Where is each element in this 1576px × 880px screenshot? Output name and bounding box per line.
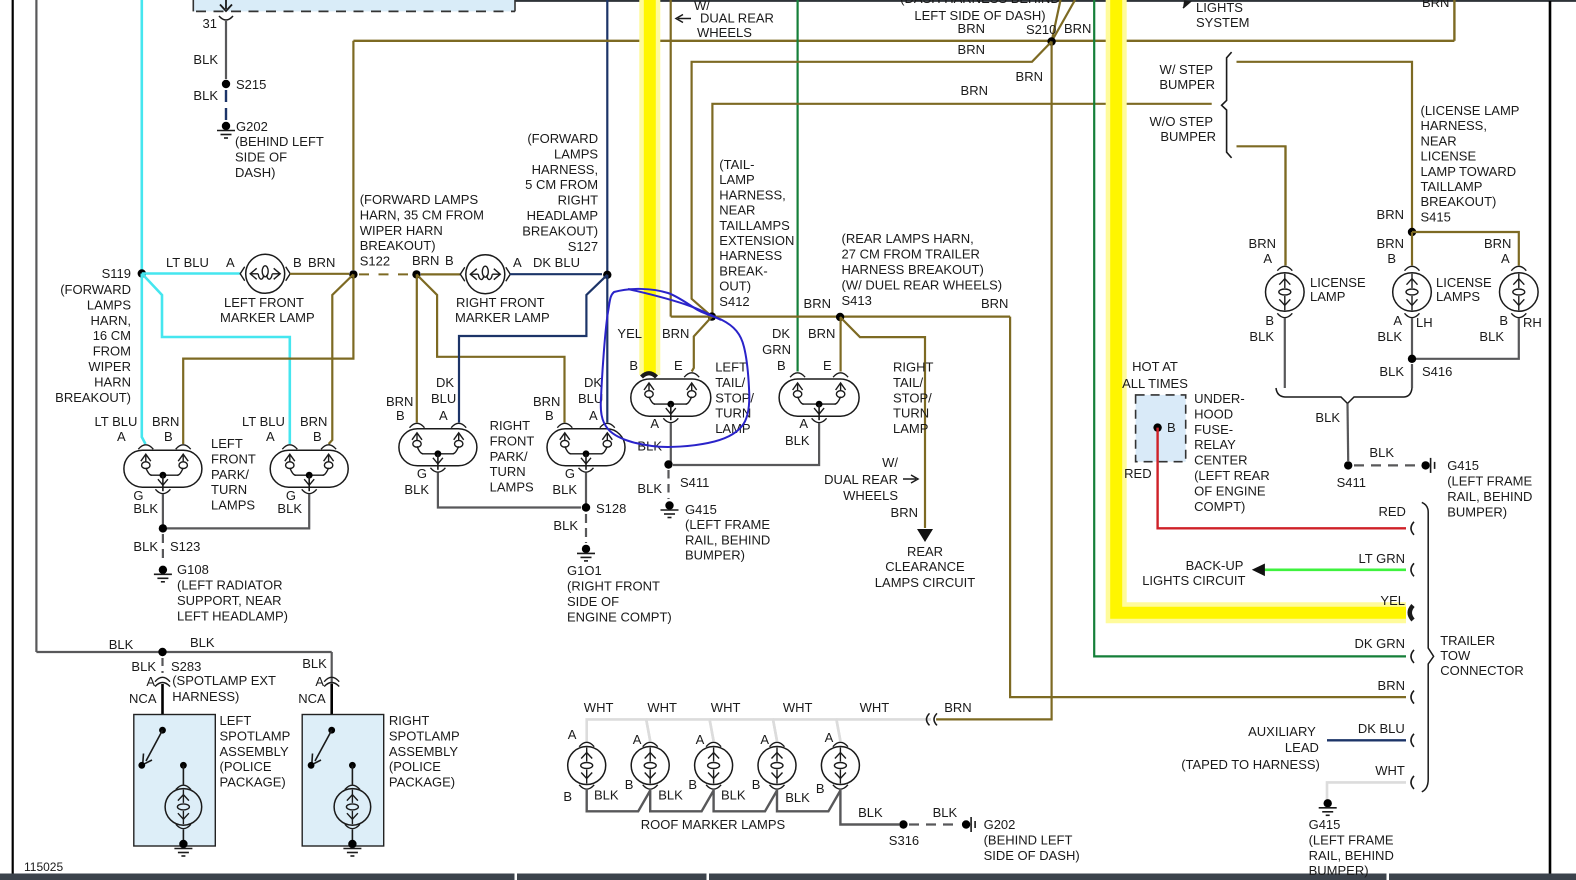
svg-text:B: B bbox=[1167, 420, 1176, 435]
svg-text:BUMPER: BUMPER bbox=[1160, 129, 1216, 144]
svg-text:TAILLAMP: TAILLAMP bbox=[1421, 179, 1483, 194]
pin A left tail lamp bbox=[663, 418, 678, 422]
svg-text:B: B bbox=[164, 429, 173, 444]
svg-text:G415: G415 bbox=[1309, 817, 1341, 832]
lamp RIGHT TAIL/STOP/TURN LAMP bbox=[779, 379, 859, 416]
svg-text:HARNESS: HARNESS bbox=[719, 248, 782, 263]
pin A right park lamp 2 bbox=[600, 423, 615, 427]
svg-text:WHT: WHT bbox=[860, 700, 890, 715]
svg-text:BLK: BLK bbox=[190, 635, 215, 650]
wire BLK dashed S411 to ground bbox=[667, 470, 669, 499]
svg-text:CONNECTOR: CONNECTOR bbox=[1440, 663, 1524, 678]
svg-text:ROOF MARKER LAMPS: ROOF MARKER LAMPS bbox=[641, 817, 786, 832]
svg-text:MARKER LAMP: MARKER LAMP bbox=[455, 310, 550, 325]
svg-text:WHT: WHT bbox=[783, 700, 813, 715]
svg-text:(RIGHT FRONT: (RIGHT FRONT bbox=[567, 579, 660, 594]
svg-text:BREAKOUT): BREAKOUT) bbox=[522, 223, 598, 238]
wire BLK lamp2 G to S123 bbox=[167, 494, 309, 528]
svg-text:G202: G202 bbox=[984, 817, 1016, 832]
svg-text:NCA: NCA bbox=[129, 691, 157, 706]
svg-text:RH: RH bbox=[1523, 315, 1542, 330]
pin A roof marker lamp 2 bbox=[643, 742, 658, 746]
wire GRN right turn feed bbox=[796, 0, 798, 372]
svg-text:BLK: BLK bbox=[785, 433, 810, 448]
svg-text:W/O STEP: W/O STEP bbox=[1149, 114, 1213, 129]
wire BRN S122 diagonal to left pair lamp2 B bbox=[329, 274, 354, 444]
svg-text:HARNESS BREAKOUT): HARNESS BREAKOUT) bbox=[842, 262, 984, 277]
pin A roof marker lamp 3 bbox=[706, 742, 721, 746]
svg-text:(SPOTLAMP EXT: (SPOTLAMP EXT bbox=[172, 673, 276, 688]
svg-text:27 CM FROM TRAILER: 27 CM FROM TRAILER bbox=[842, 247, 980, 262]
svg-text:(TAPED TO HARNESS): (TAPED TO HARNESS) bbox=[1181, 757, 1320, 772]
wire BRN splice to lamp2 B of right pair bbox=[417, 274, 565, 422]
svg-text:A: A bbox=[117, 429, 126, 444]
svg-text:RIGHT: RIGHT bbox=[389, 713, 430, 728]
pin A LH license lamp bottom bbox=[1405, 313, 1420, 317]
wire BRN w/ dual rear wheels vertical bbox=[670, 0, 672, 317]
terminal LT GRN at trailer connector bbox=[1411, 563, 1414, 576]
svg-text:LEFT: LEFT bbox=[715, 360, 747, 375]
svg-text:LEFT: LEFT bbox=[220, 713, 252, 728]
svg-text:S316: S316 bbox=[889, 833, 919, 848]
svg-text:NCA: NCA bbox=[298, 691, 326, 706]
svg-text:B: B bbox=[445, 253, 454, 268]
svg-text:BLK: BLK bbox=[277, 501, 302, 516]
svg-text:LAMP: LAMP bbox=[893, 421, 928, 436]
lamp in left spotlamp assembly bbox=[180, 762, 187, 769]
pin A right park lamp 1 bbox=[451, 423, 466, 427]
lamp ROOF MARKER LAMP 4 bbox=[758, 747, 796, 785]
svg-text:STOP/: STOP/ bbox=[893, 390, 932, 405]
svg-text:OUT): OUT) bbox=[719, 279, 751, 294]
svg-text:BRN: BRN bbox=[1016, 69, 1043, 84]
wire BRN S415 down to LH license lamp B bbox=[1411, 232, 1413, 266]
svg-text:BREAKOUT): BREAKOUT) bbox=[360, 238, 436, 253]
svg-text:RAIL, BEHIND: RAIL, BEHIND bbox=[685, 532, 770, 547]
splice S411 left bbox=[664, 460, 672, 468]
svg-text:YEL: YEL bbox=[1380, 593, 1405, 608]
svg-text:A: A bbox=[146, 674, 155, 689]
svg-text:BRN: BRN bbox=[961, 83, 988, 98]
svg-text:LH: LH bbox=[1416, 315, 1433, 330]
box UNDERHOOD FUSE-RELAY CENTER bbox=[1136, 395, 1186, 462]
pin B roof marker lamp 4 bbox=[770, 785, 785, 789]
lamp LEFT FRONT MARKER LAMP bbox=[246, 254, 285, 293]
wire BRN w/o step bumper branch to license lamp bbox=[1237, 146, 1286, 265]
svg-text:DK GRN: DK GRN bbox=[1354, 636, 1405, 651]
splice S316 bbox=[899, 820, 907, 828]
wire DK BLU auxiliary lead bbox=[1327, 739, 1406, 741]
svg-text:(W/ DUEL REAR WHEELS): (W/ DUEL REAR WHEELS) bbox=[842, 278, 1003, 293]
svg-text:FRONT: FRONT bbox=[211, 451, 256, 466]
svg-text:SYSTEM: SYSTEM bbox=[1196, 15, 1249, 30]
lamp RIGHT FRONT PARK/TURN LAMP 2 bbox=[547, 429, 625, 466]
box RIGHT SPOTLAMP ASSEMBLY bbox=[302, 715, 384, 847]
lamp LEFT FRONT PARK/TURN LAMP 2 bbox=[270, 450, 348, 487]
svg-text:RAIL, BEHIND: RAIL, BEHIND bbox=[1309, 848, 1394, 863]
wire BLK dashed S411 to G415 bbox=[1354, 464, 1416, 466]
terminal WHT at trailer connector bbox=[1411, 776, 1414, 789]
terminal DK BLU at trailer connector bbox=[1411, 734, 1414, 747]
svg-text:B: B bbox=[688, 777, 697, 792]
svg-text:TRAILER: TRAILER bbox=[1440, 633, 1495, 648]
svg-text:AUXILIARY: AUXILIARY bbox=[1248, 724, 1316, 739]
svg-text:HARN,: HARN, bbox=[91, 313, 131, 328]
svg-text:YEL: YEL bbox=[617, 326, 642, 341]
wire BLK dashed S123 to G108 bbox=[162, 534, 164, 563]
brace W/STEP / W/O STEP BUMPER bbox=[1222, 52, 1232, 158]
svg-text:LAMPS: LAMPS bbox=[87, 297, 131, 312]
svg-text:BLK: BLK bbox=[133, 539, 158, 554]
page top border bbox=[193, 0, 1576, 2]
wire BLK RH license B to S416 bbox=[1416, 318, 1519, 359]
svg-text:BRN: BRN bbox=[944, 700, 971, 715]
wire BRN trunk corner up to rear lights system bbox=[1453, 0, 1455, 41]
svg-text:A: A bbox=[513, 255, 522, 270]
svg-text:LICENSE: LICENSE bbox=[1310, 275, 1366, 290]
ground G108 bbox=[159, 566, 167, 574]
svg-text:LAMPS: LAMPS bbox=[554, 146, 598, 161]
lamp LICENSE LAMP RH bbox=[1500, 273, 1539, 312]
svg-text:BRN: BRN bbox=[412, 253, 439, 268]
svg-text:RIGHT: RIGHT bbox=[893, 360, 934, 375]
wire BRN S412 to S413 horizontal bbox=[671, 316, 1010, 318]
svg-text:S210: S210 bbox=[1026, 22, 1056, 37]
svg-text:BLK: BLK bbox=[1377, 329, 1402, 344]
svg-text:(BEHIND LEFT: (BEHIND LEFT bbox=[235, 134, 324, 149]
wire BLK LH license A to S416 bbox=[1411, 318, 1413, 359]
ground G202 behind dash (side symbol) bbox=[962, 820, 970, 828]
connector box DASH (top left, cut off) bbox=[193, 0, 515, 11]
svg-text:RED: RED bbox=[1124, 466, 1151, 481]
svg-text:RIGHT: RIGHT bbox=[558, 193, 599, 208]
svg-text:LAMPS: LAMPS bbox=[1436, 289, 1480, 304]
wire BLK dashed S283 to spotlamp connector bbox=[161, 658, 163, 673]
svg-text:E: E bbox=[674, 358, 683, 373]
lamp ROOF MARKER LAMP 3 bbox=[695, 747, 733, 785]
svg-text:HARNESS,: HARNESS, bbox=[1421, 118, 1487, 133]
svg-text:B: B bbox=[629, 358, 638, 373]
lamp LICENSE LAMP LH bbox=[1393, 273, 1432, 312]
wire BRN S413 branch to rear clearance lamps bbox=[840, 317, 925, 528]
pin B right park lamp 1 bbox=[410, 423, 425, 427]
svg-text:BRN: BRN bbox=[981, 296, 1008, 311]
svg-text:BRN: BRN bbox=[1484, 236, 1511, 251]
svg-text:BLK: BLK bbox=[933, 805, 958, 820]
splice S415 bbox=[1408, 228, 1416, 236]
wire BRN splice down to right park pair lamp1 B bbox=[416, 274, 418, 422]
svg-text:LT BLU: LT BLU bbox=[166, 255, 209, 270]
svg-text:BRN: BRN bbox=[300, 414, 327, 429]
wire DK BLU main vertical from top bbox=[606, 0, 608, 274]
lamp LEFT FRONT PARK/TURN LAMP 1 bbox=[124, 450, 202, 487]
svg-text:S215: S215 bbox=[236, 77, 266, 92]
svg-text:A: A bbox=[633, 732, 642, 747]
svg-text:SIDE OF: SIDE OF bbox=[235, 149, 287, 164]
svg-text:(LEFT REAR: (LEFT REAR bbox=[1194, 468, 1270, 483]
svg-text:B: B bbox=[1499, 313, 1508, 328]
svg-text:G202: G202 bbox=[236, 119, 268, 134]
svg-text:DK: DK bbox=[772, 326, 790, 341]
svg-text:BLK: BLK bbox=[109, 637, 134, 652]
svg-text:WHT: WHT bbox=[1375, 763, 1405, 778]
svg-text:(LEFT RADIATOR: (LEFT RADIATOR bbox=[177, 578, 282, 593]
svg-text:LAMP TOWARD: LAMP TOWARD bbox=[1421, 164, 1517, 179]
lamp LEFT TAIL/STOP/TURN LAMP bbox=[631, 379, 711, 416]
svg-text:G108: G108 bbox=[177, 562, 209, 577]
wire WHT roof marker daisy chain bbox=[587, 719, 651, 742]
svg-text:SPOTLAMP: SPOTLAMP bbox=[220, 728, 291, 743]
pin B RH license lamp bottom bbox=[1511, 313, 1526, 317]
svg-text:COMPT): COMPT) bbox=[1194, 499, 1245, 514]
svg-text:S283: S283 bbox=[171, 659, 201, 674]
svg-text:BRN: BRN bbox=[1422, 0, 1449, 10]
svg-text:BREAKOUT): BREAKOUT) bbox=[55, 390, 131, 405]
svg-text:A: A bbox=[760, 732, 769, 747]
lamp ROOF MARKER LAMP 1 bbox=[568, 747, 606, 785]
pin E left tail lamp bbox=[684, 373, 699, 377]
ground G415 left frame rail bbox=[665, 501, 673, 509]
svg-text:BRN: BRN bbox=[958, 42, 985, 57]
svg-text:BUMPER: BUMPER bbox=[1159, 77, 1215, 92]
svg-text:S416: S416 bbox=[1422, 364, 1452, 379]
wire BLK brace to S411 bbox=[1346, 404, 1349, 462]
label REAR LIGHTS SYSTEM with arrow bbox=[1183, 1, 1190, 8]
svg-text:A: A bbox=[650, 416, 659, 431]
wire GRN dk green vertical to trailer connector bbox=[1094, 0, 1406, 656]
wire NCA into left spotlamp bbox=[161, 684, 164, 730]
svg-text:G1O1: G1O1 bbox=[567, 563, 602, 578]
wire BRN S210 diagonal to tail harness corner bbox=[692, 42, 1052, 317]
splice S416 bbox=[1408, 355, 1416, 363]
svg-text:BLK: BLK bbox=[858, 805, 883, 820]
svg-text:BLK: BLK bbox=[553, 518, 578, 533]
svg-text:WHEELS: WHEELS bbox=[697, 25, 752, 40]
svg-text:S127: S127 bbox=[568, 239, 598, 254]
wire BRN dashed S122 to splice bbox=[359, 273, 412, 275]
wire BLK right tail A to S411 bbox=[673, 423, 819, 465]
svg-text:LIGHTS: LIGHTS bbox=[1196, 0, 1243, 15]
svg-text:LAMP: LAMP bbox=[719, 172, 754, 187]
svg-text:SUPPORT, NEAR: SUPPORT, NEAR bbox=[177, 593, 282, 608]
svg-text:(LEFT FRAME: (LEFT FRAME bbox=[685, 517, 770, 532]
svg-text:A: A bbox=[439, 408, 448, 423]
wire DK BLU S127 down to right pair lamp2 A bbox=[606, 275, 608, 423]
svg-text:S415: S415 bbox=[1421, 209, 1451, 224]
svg-text:(BEHIND LEFT: (BEHIND LEFT bbox=[984, 832, 1073, 847]
svg-text:(POLICE: (POLICE bbox=[389, 759, 441, 774]
svg-text:BLU: BLU bbox=[431, 391, 456, 406]
svg-text:(LEFT FRAME: (LEFT FRAME bbox=[1309, 832, 1394, 847]
svg-text:PACKAGE): PACKAGE) bbox=[220, 775, 286, 790]
svg-text:16 CM: 16 CM bbox=[93, 328, 131, 343]
svg-text:HOT AT: HOT AT bbox=[1132, 359, 1178, 374]
splice S413 bbox=[836, 313, 844, 321]
svg-text:S412: S412 bbox=[719, 294, 749, 309]
wire WHT trailer ground lead bbox=[1327, 782, 1406, 799]
svg-text:LAMP: LAMP bbox=[1310, 289, 1345, 304]
svg-text:B: B bbox=[396, 408, 405, 423]
terminal DK GRN at trailer connector bbox=[1411, 650, 1414, 663]
wire BRN S413 down to right tail E pin bbox=[839, 317, 841, 372]
svg-text:BRN: BRN bbox=[308, 255, 335, 270]
brace TRAILER TOW CONNECTOR bbox=[1422, 502, 1434, 791]
svg-text:S123: S123 bbox=[170, 539, 200, 554]
lamp LICENSE LAMP (single) bbox=[1266, 273, 1305, 312]
svg-text:(LICENSE LAMP: (LICENSE LAMP bbox=[1421, 103, 1520, 118]
svg-text:LIGHTS CIRCUIT: LIGHTS CIRCUIT bbox=[1142, 573, 1245, 588]
svg-text:RELAY: RELAY bbox=[1194, 437, 1236, 452]
svg-text:BREAKOUT): BREAKOUT) bbox=[1421, 194, 1497, 209]
splice S283 bbox=[158, 648, 166, 656]
svg-text:FRONT: FRONT bbox=[490, 433, 535, 448]
svg-text:A: A bbox=[696, 732, 705, 747]
svg-text:WIPER HARN: WIPER HARN bbox=[360, 223, 443, 238]
wire BLK dashed S215 to G202 bbox=[225, 90, 227, 120]
svg-text:G415: G415 bbox=[1447, 458, 1479, 473]
svg-text:115025: 115025 bbox=[24, 860, 63, 874]
wire LT BLU branch S119 to right lamp of pair bbox=[142, 274, 290, 445]
svg-text:31: 31 bbox=[203, 16, 217, 31]
svg-text:WIPER: WIPER bbox=[88, 359, 131, 374]
wire BRN S122 vertical to left pair lamp1 B bbox=[183, 274, 353, 444]
svg-text:BLK: BLK bbox=[193, 88, 218, 103]
svg-text:A: A bbox=[825, 730, 834, 745]
svg-text:W/: W/ bbox=[882, 455, 898, 470]
ground G415 trailer bbox=[1324, 799, 1332, 807]
svg-text:BLK: BLK bbox=[1315, 410, 1340, 425]
svg-text:HARNESS,: HARNESS, bbox=[719, 187, 785, 202]
wire BLK right spotlamp riser bbox=[331, 652, 333, 684]
wire BRN main horizontal trunk bbox=[353, 40, 1454, 42]
terminal BRN at trailer connector bbox=[1411, 691, 1414, 704]
ground right spotlamp bbox=[348, 840, 356, 848]
svg-text:LICENSE: LICENSE bbox=[1436, 275, 1492, 290]
svg-text:BRN: BRN bbox=[1377, 236, 1404, 251]
svg-text:A: A bbox=[799, 416, 808, 431]
pin A roof marker lamp 5 bbox=[833, 742, 848, 746]
svg-text:BLK: BLK bbox=[1379, 364, 1404, 379]
annotation hand-drawn blue loop bbox=[601, 289, 750, 447]
pin A roof marker lamp 4 bbox=[770, 742, 785, 746]
svg-text:UNDER-: UNDER- bbox=[1194, 391, 1245, 406]
splice S215 bbox=[222, 80, 230, 88]
svg-text:PACKAGE): PACKAGE) bbox=[389, 775, 455, 790]
svg-text:S411: S411 bbox=[1337, 475, 1366, 490]
svg-text:HEADLAMP: HEADLAMP bbox=[527, 208, 599, 223]
svg-text:BRN: BRN bbox=[152, 414, 179, 429]
svg-text:TURN: TURN bbox=[893, 406, 929, 421]
wire NCA into right spotlamp bbox=[330, 684, 333, 730]
svg-text:LEFT FRONT: LEFT FRONT bbox=[224, 295, 304, 310]
svg-text:BLK: BLK bbox=[193, 52, 218, 67]
svg-text:BRN: BRN bbox=[804, 296, 831, 311]
wire BLK lamp4 G to S128 bbox=[585, 473, 587, 508]
svg-text:RAIL, BEHIND: RAIL, BEHIND bbox=[1447, 489, 1532, 504]
svg-text:BLK: BLK bbox=[131, 659, 156, 674]
svg-text:BLK: BLK bbox=[658, 788, 683, 803]
svg-text:B: B bbox=[752, 777, 761, 792]
svg-text:BRN: BRN bbox=[958, 21, 985, 36]
svg-text:A: A bbox=[1393, 313, 1402, 328]
svg-text:HARNESS): HARNESS) bbox=[172, 689, 239, 704]
bottom toolbar bbox=[0, 874, 1576, 880]
brace joining license lamp grounds bbox=[1276, 388, 1412, 404]
svg-text:SIDE OF: SIDE OF bbox=[567, 594, 619, 609]
svg-text:LEFT: LEFT bbox=[211, 436, 243, 451]
svg-text:TAIL/: TAIL/ bbox=[893, 375, 923, 390]
wire LT BLU main feed vertical bbox=[141, 0, 144, 274]
arrow to rear clearance lamps circuit bbox=[917, 529, 933, 542]
pin 31 arrow into connector bbox=[225, 0, 227, 9]
ground G415 at frame (side symbol) bbox=[1421, 461, 1429, 469]
svg-text:LAMPS CIRCUIT: LAMPS CIRCUIT bbox=[875, 575, 975, 590]
svg-text:HOOD: HOOD bbox=[1194, 406, 1233, 421]
svg-text:BRN: BRN bbox=[1249, 236, 1276, 251]
splice S119 bbox=[138, 269, 146, 277]
lamp ROOF MARKER LAMP 5 bbox=[821, 747, 859, 785]
svg-text:B: B bbox=[1265, 313, 1274, 328]
svg-text:BLK: BLK bbox=[1249, 329, 1274, 344]
svg-text:BLK: BLK bbox=[552, 482, 577, 497]
svg-text:G: G bbox=[565, 466, 575, 481]
svg-text:ENGINE COMPT): ENGINE COMPT) bbox=[567, 610, 672, 625]
wire BRN marker lamp to S122 bbox=[290, 273, 349, 275]
pin B left park lamp 1 bbox=[176, 445, 191, 449]
svg-text:RIGHT: RIGHT bbox=[490, 418, 530, 433]
svg-text:WHT: WHT bbox=[584, 700, 614, 715]
ground G202 (behind left side of dash) bbox=[222, 122, 230, 130]
wire LT GRN backup lights circuit bbox=[1264, 568, 1406, 571]
svg-text:B: B bbox=[313, 429, 322, 444]
svg-text:5 CM FROM: 5 CM FROM bbox=[525, 177, 598, 192]
wire BRN to left license lamp A bbox=[1284, 146, 1286, 265]
lamp in right spotlamp assembly bbox=[349, 762, 356, 769]
svg-text:A: A bbox=[1501, 251, 1510, 266]
svg-text:(REAR LAMPS HARN,: (REAR LAMPS HARN, bbox=[842, 231, 974, 246]
svg-text:LT GRN: LT GRN bbox=[1359, 551, 1405, 566]
svg-text:NEAR: NEAR bbox=[719, 203, 755, 218]
svg-text:RED: RED bbox=[1378, 504, 1405, 519]
svg-text:S119: S119 bbox=[102, 266, 131, 281]
pin A roof marker lamp 1 bbox=[579, 742, 594, 746]
svg-text:BLK: BLK bbox=[637, 481, 662, 496]
wire RED fuse B to trailer connector bbox=[1158, 428, 1406, 529]
svg-text:S122: S122 bbox=[360, 254, 390, 269]
splice S127 bbox=[603, 271, 611, 279]
svg-text:NEAR: NEAR bbox=[1421, 133, 1457, 148]
pin A left license lamp bbox=[1277, 266, 1292, 270]
svg-text:A: A bbox=[1263, 251, 1272, 266]
svg-text:HARN, 35 CM FROM: HARN, 35 CM FROM bbox=[360, 207, 484, 222]
pin 31 terminal cup bbox=[219, 16, 233, 20]
wire BLK left tail A to S411 bbox=[670, 423, 672, 465]
svg-text:LEAD: LEAD bbox=[1285, 740, 1319, 755]
box LEFT SPOTLAMP ASSEMBLY bbox=[134, 715, 216, 847]
pin B left license lamp bottom bbox=[1277, 313, 1292, 317]
svg-text:DK: DK bbox=[436, 375, 454, 390]
svg-text:BACK-UP: BACK-UP bbox=[1186, 558, 1244, 573]
pin G left park lamp 2 bbox=[302, 489, 317, 493]
svg-text:(FORWARD: (FORWARD bbox=[60, 282, 131, 297]
svg-text:WHT: WHT bbox=[647, 700, 677, 715]
svg-text:HARNESS,: HARNESS, bbox=[532, 162, 598, 177]
svg-text:S413: S413 bbox=[842, 293, 872, 308]
pin B left tail lamp (yellow highlighted) bbox=[642, 373, 657, 377]
pin B left park lamp 2 bbox=[321, 445, 336, 449]
page left border bbox=[12, 0, 14, 874]
svg-text:TAIL/: TAIL/ bbox=[715, 375, 745, 390]
